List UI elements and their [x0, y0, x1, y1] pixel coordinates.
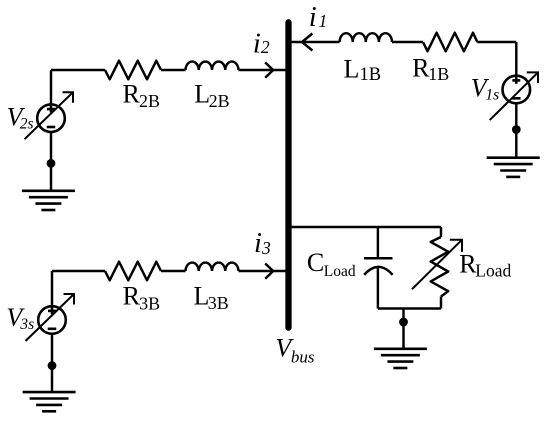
- svg-text:2B: 2B: [139, 91, 160, 111]
- svg-text:1B: 1B: [360, 65, 382, 85]
- svg-text:1s: 1s: [485, 86, 499, 103]
- svg-text:R: R: [123, 79, 141, 108]
- svg-text:3: 3: [261, 238, 271, 258]
- svg-text:i: i: [309, 2, 317, 33]
- svg-text:3s: 3s: [19, 316, 34, 333]
- svg-text:i: i: [253, 28, 261, 59]
- svg-text:L: L: [344, 54, 360, 83]
- svg-text:Load: Load: [475, 260, 511, 280]
- svg-text:1B: 1B: [428, 64, 449, 84]
- svg-text:2B: 2B: [209, 91, 230, 111]
- svg-text:bus: bus: [291, 347, 315, 366]
- svg-text:i: i: [254, 228, 262, 259]
- svg-text:1: 1: [319, 11, 328, 31]
- svg-text:3B: 3B: [208, 293, 229, 313]
- svg-text:2s: 2s: [20, 115, 34, 132]
- svg-text:R: R: [123, 282, 141, 311]
- svg-text:C: C: [307, 248, 324, 277]
- svg-text:Load: Load: [324, 263, 356, 280]
- svg-text:2: 2: [261, 37, 270, 57]
- svg-text:3B: 3B: [139, 293, 160, 313]
